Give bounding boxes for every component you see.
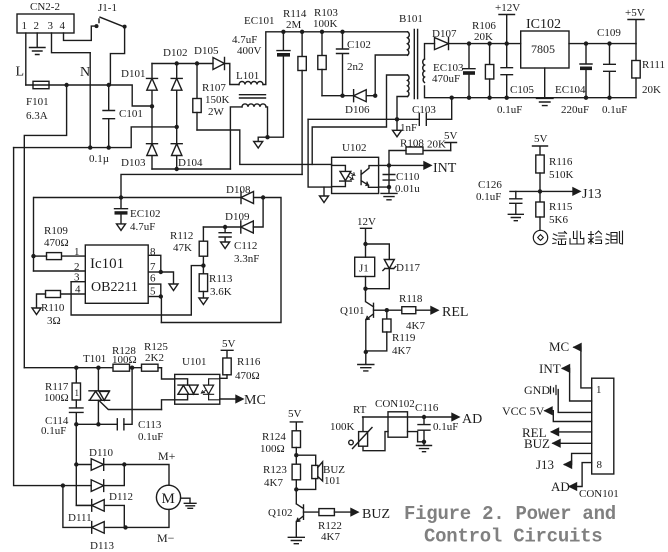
ground (Q102) <box>288 537 304 543</box>
svg-text:VCC 5V: VCC 5V <box>502 404 545 418</box>
svg-text:Q102: Q102 <box>268 507 292 519</box>
wire R117 line down to motor bridge <box>76 424 91 505</box>
arrow AD <box>452 414 459 421</box>
svg-text:R111: R111 <box>642 59 665 71</box>
svg-text:100K: 100K <box>313 18 338 30</box>
relay J1 <box>355 244 375 289</box>
svg-text:510K: 510K <box>549 169 574 181</box>
arrow REL (CON101) <box>552 428 559 435</box>
svg-text:R116: R116 <box>237 356 261 368</box>
svg-text:0.1µ: 0.1µ <box>89 153 109 165</box>
svg-text:3.6K: 3.6K <box>210 286 232 298</box>
svg-text:0.1uF: 0.1uF <box>138 431 163 443</box>
node C109 top <box>607 41 611 45</box>
node C112 top <box>223 225 227 229</box>
wire J1-1 right contact to C101 node <box>110 27 124 85</box>
svg-text:CON101: CON101 <box>579 488 619 500</box>
inductor L101 primary winding <box>236 32 408 85</box>
svg-text:20K: 20K <box>427 139 446 151</box>
node EC101 top <box>281 30 285 34</box>
wire L line <box>26 85 152 106</box>
svg-text:J13: J13 <box>536 457 554 472</box>
wire relay/D117 top branch <box>366 244 390 259</box>
connector CON101 <box>579 378 619 500</box>
svg-text:7805: 7805 <box>531 42 555 56</box>
svg-text:C105: C105 <box>510 84 534 96</box>
ground (C126) <box>508 214 523 220</box>
diode D113 <box>63 486 169 552</box>
wire R125 to U101 <box>158 368 175 379</box>
ground (arrow, pin7) <box>169 284 178 291</box>
wire D106 line <box>322 95 354 97</box>
svg-text:MC: MC <box>244 393 266 408</box>
wire CN2-2 pin4 to J1-1 <box>64 26 97 40</box>
svg-text:INT: INT <box>433 161 457 176</box>
svg-text:AD: AD <box>462 412 482 427</box>
svg-text:INT: INT <box>539 361 561 376</box>
arrow BUZ (CON101) <box>553 440 560 447</box>
label GND + symbol <box>524 383 592 412</box>
svg-text:R119: R119 <box>392 332 416 344</box>
wire rail A (left long rail) <box>14 148 63 486</box>
svg-text:5K6: 5K6 <box>549 214 568 226</box>
wire MC pin <box>574 347 592 388</box>
capacitor C116 <box>418 417 458 442</box>
diode D108 <box>226 184 263 204</box>
svg-text:EC104: EC104 <box>555 84 586 96</box>
node D106 right <box>373 94 377 98</box>
node C110 bottom <box>387 185 391 189</box>
triac T101 <box>89 368 162 425</box>
svg-text:BUZ: BUZ <box>524 436 550 451</box>
node base/R119 <box>385 308 389 312</box>
capacitor EC102 <box>115 198 161 234</box>
capacitor C112 <box>219 227 259 265</box>
svg-text:Q101: Q101 <box>340 305 364 317</box>
svg-text:470Ω: 470Ω <box>235 370 260 382</box>
svg-text:Ic101: Ic101 <box>90 256 124 272</box>
svg-text:L: L <box>16 65 25 80</box>
svg-text:EC101: EC101 <box>244 15 275 27</box>
svg-text:100Ω: 100Ω <box>44 392 69 404</box>
wire R112 junction to pin3 line <box>71 266 203 315</box>
svg-text:T101: T101 <box>83 353 106 365</box>
wire Q102 base <box>304 511 319 513</box>
svg-text:5V: 5V <box>222 338 236 350</box>
capacitor EC104 <box>555 44 592 116</box>
wire CON102 pin2 out <box>408 432 425 442</box>
pin 7 <box>148 261 161 273</box>
wire D110 row <box>76 464 91 466</box>
diode D102 <box>163 47 187 127</box>
ground (arrow, L101 sec) <box>254 142 263 149</box>
svg-text:7: 7 <box>150 261 156 273</box>
capacitor C103 <box>400 98 452 134</box>
node R117 top <box>74 366 78 370</box>
diode D110 <box>89 447 169 485</box>
diode D117 (zener) <box>383 260 421 289</box>
wire U102 cathode return <box>308 119 332 187</box>
connector CN2-2 <box>17 1 74 33</box>
svg-text:D101: D101 <box>121 68 145 80</box>
svg-text:B101: B101 <box>399 13 423 25</box>
arrow INT <box>424 162 431 169</box>
optocoupler U102 <box>332 142 379 194</box>
wire B101 aux bottom lead <box>397 97 408 120</box>
diode D109 <box>203 211 253 233</box>
node T101 bottom <box>96 422 100 426</box>
arrow MC (CON101) <box>574 344 581 351</box>
svg-text:U101: U101 <box>182 356 206 368</box>
wire D106 to B101 primary bottom <box>375 55 407 96</box>
regulator IC102 <box>521 17 569 68</box>
arrow REL <box>431 307 438 314</box>
svg-text:R109: R109 <box>44 225 68 237</box>
svg-text:150K: 150K <box>205 94 230 106</box>
wire bridge top line <box>152 63 213 65</box>
svg-text:CN2-2: CN2-2 <box>30 1 60 13</box>
pin 4 <box>61 284 86 296</box>
capacitor C109 <box>597 27 627 116</box>
svg-text:C103: C103 <box>412 104 436 116</box>
svg-text:3.3nF: 3.3nF <box>234 253 259 265</box>
svg-text:D111: D111 <box>68 512 92 524</box>
IC Ic101 OB2211 <box>85 245 148 303</box>
svg-text:3Ω: 3Ω <box>47 315 61 327</box>
svg-text:6.3A: 6.3A <box>26 110 48 122</box>
svg-text:CON102: CON102 <box>375 398 415 410</box>
svg-text:20K: 20K <box>642 84 661 96</box>
node R106 top <box>487 41 491 45</box>
node R112/R113 <box>201 263 205 267</box>
power 5V (R124) <box>288 408 303 431</box>
resistor R128 <box>112 345 137 371</box>
wire R109 loop to EC102 line <box>33 198 35 272</box>
node bridge bottom <box>175 167 179 171</box>
resistor R111 <box>632 44 665 98</box>
svg-text:100Ω: 100Ω <box>260 443 285 455</box>
svg-text:5V: 5V <box>288 408 302 420</box>
svg-text:C101: C101 <box>119 108 143 120</box>
svg-text:R112: R112 <box>170 230 193 242</box>
probe circle (overflow detect) <box>533 230 547 244</box>
resistor R116 470 <box>220 356 261 382</box>
wire EC102/D108 line <box>34 197 241 199</box>
svg-text:0.1uF: 0.1uF <box>433 421 458 433</box>
transistor Q102 <box>268 504 304 537</box>
ground (IC102) <box>537 98 554 105</box>
buzzer BUZ101 <box>296 455 345 489</box>
resistor R117 <box>44 368 81 408</box>
svg-text:220uF: 220uF <box>561 104 589 116</box>
wire 5V output line <box>569 43 636 45</box>
ground (arrow, C112) <box>221 242 230 249</box>
wire bridge bottom <box>152 168 230 170</box>
capacitor C101 <box>103 85 143 148</box>
wire D109 branch <box>253 198 263 228</box>
resistor R103 <box>313 7 338 96</box>
wire MC out <box>220 398 236 400</box>
node R109 left <box>31 254 35 258</box>
wire D108 node right to loop <box>161 198 281 323</box>
resistor R125 <box>142 341 169 371</box>
node D110 right <box>122 462 126 466</box>
resistor R114 <box>283 8 307 174</box>
node C101 bottom <box>107 145 111 149</box>
svg-text:AD: AD <box>551 479 570 494</box>
svg-text:M+: M+ <box>158 449 176 463</box>
wire R107 bottom to U102 LED anode <box>197 130 332 164</box>
diode D105 <box>194 45 225 70</box>
node R124 bottom <box>294 453 298 457</box>
wire R114 bottom to EC102 line <box>121 174 302 197</box>
node R114 top <box>300 30 304 34</box>
svg-text:470uF: 470uF <box>432 73 460 85</box>
capacitor C126 <box>476 179 522 214</box>
svg-text:20K: 20K <box>474 31 493 43</box>
node pin5 <box>159 294 163 298</box>
arrow VCC <box>545 407 552 414</box>
motor M <box>156 485 196 509</box>
svg-text:C102: C102 <box>347 39 371 51</box>
L101 core <box>240 95 266 98</box>
svg-text:+5V: +5V <box>625 7 645 19</box>
svg-text:C116: C116 <box>415 402 439 414</box>
svg-text:3: 3 <box>48 20 54 32</box>
svg-text:J1: J1 <box>359 263 369 275</box>
capacitor C105 <box>497 44 534 116</box>
wire D117 bottom to collector <box>366 288 390 290</box>
svg-text:R116: R116 <box>549 156 573 168</box>
svg-text:R123: R123 <box>263 464 287 476</box>
diode D112 <box>91 465 133 504</box>
svg-text:D110: D110 <box>89 447 114 459</box>
resistor R108 <box>389 138 451 188</box>
arrow J13 <box>573 188 580 195</box>
node J13 divider <box>538 189 542 193</box>
svg-text:L101: L101 <box>236 70 259 82</box>
ground (arrow, U102 LED) <box>320 187 329 202</box>
svg-text:4K7: 4K7 <box>264 477 283 489</box>
svg-text:R115: R115 <box>549 201 573 213</box>
svg-text:D106: D106 <box>345 104 370 116</box>
svg-text:R110: R110 <box>41 302 65 314</box>
svg-text:MC: MC <box>549 339 569 354</box>
capacitor C102 <box>337 32 371 96</box>
node C101 top <box>107 83 111 87</box>
node C116 top <box>422 415 426 419</box>
svg-text:D104: D104 <box>178 157 203 169</box>
svg-text:0.1uF: 0.1uF <box>476 191 501 203</box>
resistor R112 <box>170 227 208 266</box>
svg-text:M−: M− <box>157 531 175 545</box>
svg-text:8: 8 <box>150 246 156 258</box>
svg-text:12V: 12V <box>357 216 376 228</box>
capacitor EC101 <box>232 15 290 137</box>
node EC103 top <box>467 41 471 45</box>
svg-text:D103: D103 <box>121 157 146 169</box>
node INT junction <box>387 163 391 167</box>
wire B101 secondary top to D107 <box>425 44 435 59</box>
wire BUZ pin <box>553 442 592 444</box>
pin 2 <box>34 261 86 273</box>
node L101 sec ground <box>265 135 269 139</box>
wire neutral bottom line <box>14 127 177 148</box>
node EC102 top <box>119 195 123 199</box>
diode D111 <box>68 500 124 528</box>
node C116 bottom <box>422 440 426 444</box>
svg-text:4K7: 4K7 <box>321 531 340 543</box>
svg-text:400V: 400V <box>237 45 262 57</box>
node D104 top <box>175 125 179 129</box>
resistor R107 <box>193 64 230 131</box>
capacitor C114 <box>41 408 83 437</box>
svg-text:0.1uF: 0.1uF <box>602 104 627 116</box>
node R103 top <box>320 30 324 34</box>
node D108 out <box>261 195 265 199</box>
wire CN2-2 pin1 to L line <box>25 33 27 85</box>
svg-text:EC102: EC102 <box>130 208 161 220</box>
resistor R116 510K <box>536 155 574 191</box>
fuse F101 <box>26 81 49 122</box>
arrow AD (CON101) <box>570 483 577 490</box>
pin 6 <box>148 273 161 297</box>
node D102 top <box>175 61 179 65</box>
power +12V <box>495 2 520 44</box>
power 5V (R108) <box>444 130 458 151</box>
resistor R122 <box>318 509 351 543</box>
node +12V rail <box>505 41 509 45</box>
svg-text:R118: R118 <box>399 293 423 305</box>
svg-text:0.1uF: 0.1uF <box>497 104 522 116</box>
arrow MC <box>236 396 243 403</box>
switch J1-1 <box>95 2 127 29</box>
wire B101 aux top lead <box>312 75 407 164</box>
wire ground jog <box>258 137 267 141</box>
svg-text:2n2: 2n2 <box>347 61 364 73</box>
ground (arrow, R113) <box>199 298 208 305</box>
svg-text:J13: J13 <box>582 187 601 202</box>
transistor Q101 <box>340 289 374 352</box>
ground (CN2-2 pin2) <box>30 48 46 55</box>
inductor L101 secondary <box>230 104 267 169</box>
wire CN2-2 pin2 <box>36 33 38 47</box>
node EC104 bottom <box>584 96 588 100</box>
pin 5 <box>148 286 161 298</box>
node D113 right <box>123 525 127 529</box>
svg-text:6: 6 <box>150 273 156 285</box>
svg-text:D109: D109 <box>225 211 250 223</box>
resistor R113 <box>199 266 233 298</box>
node T101 top <box>96 366 100 370</box>
node L line junction (F101 out) <box>64 83 68 87</box>
node D112 left <box>61 483 65 487</box>
pin 3 <box>71 272 85 284</box>
node EC104 top <box>584 41 588 45</box>
wire J13 line <box>510 190 573 192</box>
node R107 top <box>195 61 199 65</box>
svg-text:101: 101 <box>324 475 341 487</box>
optocoupler U101 <box>175 356 220 404</box>
transformer B101 <box>399 13 425 99</box>
node relay top <box>363 242 367 246</box>
node C102 top <box>340 30 344 34</box>
wire INT <box>389 164 424 166</box>
wire AD line <box>363 416 452 418</box>
svg-text:D113: D113 <box>90 540 115 552</box>
node N on bottom line <box>88 145 92 149</box>
wire C103 line <box>308 118 419 120</box>
node pin7/8 <box>159 270 163 274</box>
wire pin5 riser <box>160 297 162 323</box>
ground (arrow, R110) <box>32 308 41 315</box>
ground (C116) <box>417 442 432 452</box>
label overflow-detect (Chinese) <box>553 231 623 245</box>
svg-text:OB2211: OB2211 <box>91 280 138 295</box>
svg-text:1nF: 1nF <box>400 122 417 134</box>
wire U102 pins right <box>379 165 389 187</box>
diode D106 <box>345 90 375 116</box>
svg-text:C112: C112 <box>234 240 257 252</box>
svg-text:Control Circuits: Control Circuits <box>424 526 602 548</box>
wire pin7 to ground <box>161 272 174 284</box>
svg-text:N: N <box>80 65 90 80</box>
node C102 bottom <box>340 94 344 98</box>
power 5V (U101) <box>221 338 235 358</box>
wire CN2-2 pin3 to N <box>52 33 91 53</box>
node R123 bottom <box>294 487 298 491</box>
svg-text:4K7: 4K7 <box>392 345 411 357</box>
ground (arrow, EC102) <box>117 224 126 231</box>
node emitter/R119 <box>364 350 368 354</box>
node D101 mid <box>150 104 154 108</box>
capacitor EC103 <box>432 44 475 98</box>
svg-text:R124: R124 <box>262 431 286 443</box>
svg-text:M: M <box>162 491 175 507</box>
svg-text:C109: C109 <box>597 27 621 39</box>
svg-text:R107: R107 <box>202 82 226 94</box>
svg-text:Figure 2. Power and: Figure 2. Power and <box>404 503 616 525</box>
svg-text:5V: 5V <box>444 130 458 142</box>
svg-text:2M: 2M <box>286 19 302 31</box>
wire 12V ground rail <box>452 97 636 99</box>
resistor R115 <box>536 191 573 230</box>
node secondary bottom rail <box>450 96 454 100</box>
svg-text:5V: 5V <box>534 133 548 145</box>
pin 1 <box>62 246 86 258</box>
svg-text:F101: F101 <box>26 96 49 108</box>
svg-text:0.1uF: 0.1uF <box>41 425 66 437</box>
node C114 bottom <box>74 422 78 426</box>
svg-text:REL: REL <box>442 305 468 320</box>
wire D105 out to L101 <box>225 64 240 85</box>
svg-text:D105: D105 <box>194 45 219 57</box>
svg-text:C126: C126 <box>478 179 502 191</box>
node C105 bottom <box>505 96 509 100</box>
power 12V (relay) <box>357 216 376 244</box>
svg-text:1: 1 <box>75 388 80 398</box>
diode D103 <box>121 127 158 169</box>
thermistor RT <box>330 417 388 451</box>
capacitor C113 <box>117 419 163 443</box>
node relay bottom <box>363 287 367 291</box>
resistor R119 <box>366 310 416 357</box>
wire N riser <box>89 53 91 148</box>
diode D101 <box>121 64 158 127</box>
node R106 bottom <box>487 96 491 100</box>
svg-text:BUZ: BUZ <box>362 507 390 522</box>
wire U101 lower-left pin to gate <box>162 400 175 410</box>
